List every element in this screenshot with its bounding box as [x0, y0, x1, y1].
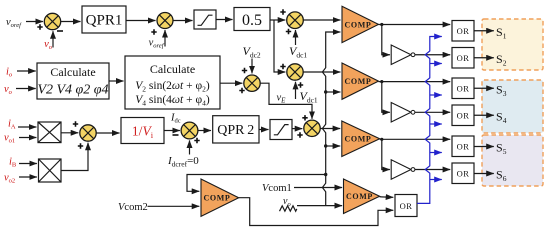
- wire J7 to 1/Vi block: [96, 132, 119, 134]
- wire I_dcref into J8: [189, 140, 191, 154]
- wire Calculate to Calculate sin block: [109, 80, 124, 82]
- gate OR7: [395, 195, 417, 217]
- block QPR1: [82, 6, 126, 33]
- wire COMP1 output to OR1: [379, 23, 451, 26]
- wire J6 to COMP3 input 1: [320, 128, 340, 130]
- wire V_dc2 into J4: [251, 59, 253, 74]
- wire OR3 to S3: [474, 87, 494, 89]
- wire blue branch to OR3: [430, 94, 442, 96]
- svg-text:0.5: 0.5: [242, 12, 262, 29]
- svg-text:OR: OR: [457, 110, 470, 120]
- wire QPR2 to limiter 2: [259, 129, 269, 131]
- wire J3 to COMP1 input 1: [303, 19, 340, 21]
- inverter NOT3: [391, 160, 415, 179]
- comparator COMP4: [344, 179, 380, 214]
- wire COMP3 output down to NOT3: [382, 139, 390, 169]
- wire branch 0.5 down to summer J5: [274, 20, 285, 72]
- node i_o input label: [6, 67, 13, 79]
- summing junction J7: [73, 121, 96, 148]
- block QPR2: [213, 116, 259, 143]
- node V_dc1 label (upper): [289, 44, 307, 60]
- wire COMP2 output down to NOT2: [382, 82, 390, 113]
- wire J5 to COMP2 input 1: [303, 71, 340, 73]
- wire OR6 to S6: [474, 173, 494, 175]
- svg-text:OR: OR: [457, 141, 470, 151]
- summing junction J3: [280, 9, 303, 34]
- wire J8 to QPR2: [198, 130, 211, 132]
- node v_oA input label: [4, 133, 15, 145]
- node I_dc label: [170, 113, 181, 125]
- inverter NOT2: [391, 103, 415, 123]
- wire v_o into J1: [52, 31, 54, 47]
- node Vcom1 label: [262, 183, 292, 194]
- wire blue branch to OR5: [430, 152, 442, 154]
- node v_oB input label: [4, 173, 15, 185]
- wire QPR1 to summer J2: [126, 20, 156, 22]
- gate OR2: [452, 48, 474, 69]
- wire carrier to COMP2 input 2: [326, 91, 341, 93]
- node i_B input label: [9, 157, 17, 169]
- comparator COMP1: [342, 6, 379, 42]
- node Vcom2 label: [118, 202, 148, 213]
- wire COMP2 output to OR3: [379, 80, 451, 83]
- node i_A input label: [8, 119, 16, 131]
- svg-text:V2 sin(2ωt + φ2): V2 sin(2ωt + φ2): [135, 80, 210, 93]
- wire J4 output v_E to summer J6: [260, 83, 312, 119]
- gate OR1: [452, 21, 474, 42]
- wire v_oref into J2: [164, 30, 166, 47]
- wire blue branch to OR2: [430, 63, 442, 65]
- node v_o input label: [4, 84, 13, 96]
- wire i_o into Calculate block: [17, 70, 36, 72]
- wire J2 to limiter: [173, 20, 193, 22]
- svg-text:Calculate: Calculate: [150, 62, 195, 76]
- wire OR7 output blue trunk: [417, 37, 442, 204]
- wire carrier to COMP3 input 2: [326, 145, 341, 147]
- wire OR4 to S4: [474, 114, 494, 116]
- node S1 label: [496, 25, 507, 41]
- wire OR1 to S1: [474, 30, 494, 32]
- summing junction J2: [151, 13, 173, 35]
- node v_oref feedforward label: [149, 38, 165, 50]
- node V_dc2 label: [243, 44, 261, 60]
- wire Vcom1 to COMP4 input 1: [294, 187, 342, 189]
- wire NOT2 output to OR4: [415, 111, 450, 113]
- wire M2 up into J7: [61, 143, 88, 171]
- node v_oref input label: [6, 17, 22, 29]
- output group box S5 S6: [482, 135, 543, 186]
- limiter block 2 (saturation): [270, 120, 292, 140]
- node v_E label: [277, 93, 287, 105]
- svg-text:V4 sin(4ωt + φ4): V4 sin(4ωt + φ4): [135, 94, 210, 107]
- wire carrier trunk v_o (vertical): [322, 32, 340, 206]
- svg-text:OR: OR: [457, 26, 470, 36]
- carrier source v_o (triangle wave): [280, 196, 297, 211]
- node S5 label: [496, 141, 507, 157]
- summing junction J6: [297, 115, 320, 138]
- summing junction J4: [239, 68, 260, 93]
- svg-text:OR: OR: [457, 53, 470, 63]
- wire OR2 to S2: [474, 57, 494, 59]
- comparator COMP3: [342, 121, 380, 157]
- wire v_oB into multiplier M2: [19, 176, 37, 178]
- svg-text:V2 V4 φ2 φ4: V2 V4 φ2 φ4: [37, 83, 108, 98]
- wire i_B into multiplier M2: [19, 163, 37, 165]
- node I_dcref label: [167, 155, 199, 168]
- wire V_dc1 into J3: [295, 30, 297, 45]
- wire V_dc1 into J5: [295, 82, 297, 99]
- node S6 label: [496, 168, 507, 184]
- svg-text:OR: OR: [457, 83, 470, 93]
- wire limiter to 0.5 gain: [216, 19, 233, 21]
- wire v_o into Calculate block: [16, 88, 36, 90]
- wire 1/Vi to summer J8: [164, 130, 180, 132]
- multiplier M1: [38, 122, 61, 143]
- comparator COMP5: [201, 179, 239, 216]
- summing junction J1: [37, 13, 63, 31]
- gate OR5: [452, 136, 474, 157]
- wire blue branch to OR4: [430, 123, 442, 125]
- node S3 label: [496, 83, 507, 99]
- inverter NOT1: [391, 45, 415, 65]
- block Calculate V2sin V4sin: [125, 56, 220, 109]
- wire NOT1 output to OR2: [415, 54, 450, 56]
- wire v_oref to summer J1: [26, 21, 43, 23]
- wire OR5 to S5: [474, 146, 494, 148]
- wire sin block to summer J4: [220, 82, 242, 84]
- wire carrier to COMP5 input 1: [187, 175, 326, 192]
- wire blue branch to OR6: [430, 179, 442, 181]
- gate OR4: [452, 105, 474, 126]
- svg-text:QPR1: QPR1: [86, 13, 123, 29]
- wire COMP3 output to OR5: [380, 138, 451, 141]
- wire COMP4 output to OR7: [380, 196, 394, 199]
- multiplier M2: [39, 159, 62, 182]
- gate OR3: [452, 78, 474, 99]
- wire v_oA into multiplier M1: [19, 137, 36, 139]
- svg-text:1/Vi: 1/Vi: [132, 124, 154, 141]
- node v_o feedback label: [44, 39, 53, 51]
- svg-text:OR: OR: [400, 201, 413, 211]
- gain block 0.5: [234, 8, 270, 31]
- svg-text:OR: OR: [457, 168, 470, 178]
- svg-text:COMP: COMP: [345, 20, 372, 29]
- limiter block (saturation): [194, 10, 216, 29]
- wire COMP5 output to OR7: [239, 198, 394, 226]
- wire M1 to summer J7: [61, 132, 78, 134]
- summing junction J8: [173, 122, 200, 143]
- svg-text:COMP: COMP: [345, 77, 372, 86]
- wire COMP1 output down to NOT1: [382, 25, 390, 55]
- block 1/Vi: [121, 118, 164, 144]
- svg-text:Vcom1: Vcom1: [262, 183, 292, 194]
- wire J1 to QPR1: [61, 21, 81, 23]
- svg-text:QPR 2: QPR 2: [217, 123, 254, 138]
- svg-text:COMP: COMP: [204, 194, 231, 203]
- wire 0.5 to summer J3: [270, 19, 285, 21]
- node S4 label: [496, 110, 507, 126]
- svg-text:Vcom2: Vcom2: [118, 202, 148, 213]
- gate OR6: [452, 163, 474, 184]
- wire i_A into multiplier M1: [18, 126, 36, 128]
- node V_dc1 label (lower): [300, 89, 318, 105]
- summing junction J5: [280, 64, 303, 88]
- block Calculate V2 V4 phi2 phi4: [37, 63, 109, 99]
- output group box S1 S2: [482, 19, 543, 70]
- comparator COMP2: [342, 63, 379, 99]
- wire NOT3 output to OR6: [415, 169, 450, 171]
- svg-text:COMP: COMP: [346, 192, 373, 201]
- wire limiter 2 to summer J6: [292, 128, 302, 130]
- node S2 label: [496, 52, 507, 68]
- wire v_o carrier to COMP4 input 2: [297, 205, 342, 207]
- output group box S3 S4: [482, 80, 543, 133]
- svg-text:COMP: COMP: [345, 135, 372, 144]
- svg-text:Calculate: Calculate: [50, 65, 95, 79]
- wire Vcom2 to COMP5 input 2: [148, 205, 200, 207]
